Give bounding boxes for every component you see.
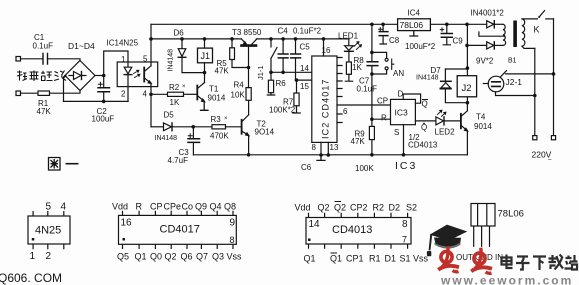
svg-text:4N25: 4N25 — [35, 225, 61, 237]
wire left vertical mains — [534, 48, 536, 135]
node C2 top — [102, 74, 106, 78]
node S rail — [402, 153, 406, 157]
svg-text:Q3: Q3 — [212, 252, 224, 262]
wire R3 to T2 base — [226, 126, 241, 128]
node J1 rail — [203, 37, 207, 41]
resistor R9 — [371, 119, 373, 126]
receiver symbol circle — [488, 76, 504, 92]
svg-text:CP2: CP2 — [350, 203, 368, 213]
svg-text:R1: R1 — [369, 254, 381, 264]
wire bridge minus down — [64, 76, 66, 102]
capacitor C9 polarized — [446, 24, 448, 33]
svg-text:8: 8 — [402, 219, 408, 230]
terminal phone-line top — [16, 57, 21, 62]
node J2 top — [466, 66, 470, 70]
node J1-1 rail — [269, 37, 273, 41]
wire pin6 to IC3 CP — [337, 104, 391, 106]
svg-text:R: R — [136, 202, 143, 212]
wire pin1 step from C2 node — [104, 51, 128, 76]
wire right vertical mains — [553, 19, 555, 136]
svg-text:8: 8 — [230, 235, 235, 245]
svg-text:T3 8550: T3 8550 — [232, 28, 262, 37]
svg-text:S2: S2 — [406, 203, 417, 213]
terminal phone-line bottom — [16, 91, 21, 96]
transistor T2 — [241, 120, 243, 134]
IC2 CD4017 box — [312, 56, 337, 142]
node pin8 rail — [319, 153, 323, 157]
svg-text:13: 13 — [330, 143, 339, 152]
svg-text:CP: CP — [150, 202, 163, 212]
terminal mains left — [533, 136, 537, 140]
node pin4 — [149, 93, 153, 97]
svg-text:K: K — [534, 25, 540, 35]
svg-text:Q606. COM: Q606. COM — [0, 271, 62, 285]
Q dot mark — [423, 123, 425, 125]
svg-text:B1: B1 — [508, 58, 517, 65]
wire pin8 — [320, 142, 322, 155]
wire pin5 up to top line — [150, 24, 152, 66]
resistor R7 — [296, 80, 298, 93]
capacitor C5 — [295, 39, 297, 54]
relay contact J2-1 arm — [500, 71, 506, 78]
svg-text:Q9: Q9 — [195, 202, 207, 212]
svg-text:T1: T1 — [209, 85, 219, 94]
node C5 rail — [294, 37, 298, 41]
svg-text:IC3: IC3 — [395, 160, 417, 172]
capacitor C8 polarized — [382, 24, 384, 31]
watermark bug 1 — [438, 246, 459, 272]
transformer core — [513, 21, 517, 48]
svg-text:CPe: CPe — [164, 202, 182, 212]
C2 plus sign — [98, 82, 102, 86]
wire pin13 — [327, 142, 329, 155]
node R5/base junction — [247, 66, 251, 70]
wire pin4 down to D5 — [151, 126, 164, 128]
svg-text:Q1: Q1 — [330, 254, 342, 264]
wire LED2 to T4 base — [444, 120, 460, 122]
svg-text:C6: C6 — [301, 163, 312, 172]
svg-text:47K: 47K — [37, 107, 52, 116]
svg-text:100uF*2: 100uF*2 — [405, 42, 436, 51]
node right vertical — [552, 72, 556, 76]
svg-text:14: 14 — [309, 219, 321, 230]
wire R5 bottom to junction — [232, 60, 249, 68]
svg-text:LED1: LED1 — [338, 32, 359, 41]
wire pin14 — [271, 71, 312, 73]
receiver left stub — [483, 83, 488, 85]
svg-text:C5: C5 — [300, 43, 311, 52]
resistor R2 — [168, 92, 184, 96]
svg-text:S: S — [394, 128, 399, 137]
svg-text:IC4: IC4 — [408, 9, 421, 18]
4N25 internal LED — [127, 62, 129, 67]
svg-text:78L06: 78L06 — [400, 20, 424, 30]
svg-text:J2: J2 — [462, 83, 472, 94]
svg-text:9014: 9014 — [474, 122, 492, 131]
svg-text:D6: D6 — [174, 29, 185, 38]
node J1-1 bottom — [269, 71, 273, 75]
diode IN4001 upper — [467, 23, 487, 25]
svg-text:CP1: CP1 — [346, 254, 364, 264]
svg-text:IN4148: IN4148 — [168, 49, 175, 72]
svg-text:9O14: 9O14 — [255, 128, 275, 137]
IC2 right pin stubs — [337, 58, 342, 123]
svg-text:5: 5 — [143, 55, 148, 64]
svg-text:J1: J1 — [201, 51, 211, 61]
svg-text:AN: AN — [393, 69, 404, 78]
wire R1 to bridge bottom — [50, 91, 81, 94]
svg-text:100uF: 100uF — [92, 115, 115, 124]
node R junction — [370, 117, 374, 121]
wire secondary bottom — [522, 46, 535, 48]
svg-text:4: 4 — [143, 90, 148, 99]
resistor R6 — [270, 72, 272, 80]
svg-text:www.eeworm.com: www.eeworm.com — [440, 274, 573, 285]
LED2 — [436, 117, 444, 125]
wire hook contact to mains — [506, 73, 554, 75]
svg-text:14: 14 — [300, 64, 309, 73]
node C4 bottom — [281, 71, 285, 75]
78L06 ground stub — [410, 31, 418, 36]
wire R2 to T1 base — [184, 93, 198, 95]
svg-text:CD4013: CD4013 — [408, 141, 438, 150]
resistor R3 — [212, 125, 226, 129]
wire pin4 to R2 — [151, 93, 168, 95]
C9 plus sign — [440, 28, 443, 31]
node J2 bottom — [466, 101, 470, 105]
capacitor C2 polarized — [103, 76, 105, 88]
svg-text:R4: R4 — [234, 81, 245, 90]
svg-text:×: × — [182, 84, 186, 90]
pinout 78L06 TO-92 — [471, 204, 495, 247]
svg-text:J2-1: J2-1 — [506, 77, 523, 87]
svg-text:IC2 CD4017: IC2 CD4017 — [321, 78, 331, 139]
relay contact J1-1 — [271, 39, 277, 72]
svg-text:C4: C4 — [278, 27, 289, 36]
text 图一 drawn glyphs — [49, 158, 79, 171]
svg-text:Q7: Q7 — [196, 252, 208, 262]
node R7 top — [295, 78, 299, 82]
svg-text:Q4: Q4 — [210, 202, 222, 212]
svg-text:Q2: Q2 — [334, 203, 346, 213]
wire terminal to C1 — [21, 58, 43, 60]
pinout CD4017 — [119, 211, 237, 249]
node top line C7 branch — [370, 23, 374, 27]
LED2 arrows — [438, 110, 447, 116]
switch K — [538, 16, 540, 18]
wire pin15 — [296, 79, 312, 81]
capacitor C6 stub — [317, 155, 325, 160]
svg-text:1: 1 — [30, 251, 36, 262]
svg-text:Q1: Q1 — [135, 252, 147, 262]
svg-text:Q2: Q2 — [318, 203, 330, 213]
wire down to C7 — [371, 24, 373, 61]
4N25 light arrows — [134, 70, 139, 73]
svg-text:1K: 1K — [352, 63, 362, 72]
svg-text:D1: D1 — [385, 254, 397, 264]
wire pin16 — [323, 39, 325, 56]
wire D7 top to J2 — [445, 68, 467, 70]
node rectifier top — [465, 23, 469, 27]
capacitor C7 — [367, 62, 378, 66]
svg-text:IN4001*2: IN4001*2 — [471, 9, 505, 18]
node AN top — [370, 51, 374, 55]
LED1 — [348, 39, 350, 46]
svg-text:S1: S1 — [400, 254, 411, 264]
svg-text:Q: Q — [422, 100, 428, 109]
wire bridge plus to C2 node — [95, 75, 104, 77]
svg-text:5: 5 — [46, 202, 52, 213]
resistor R4 — [246, 88, 251, 101]
wire main rail right part — [256, 38, 348, 40]
pinout CD4013 — [306, 202, 411, 254]
transformer B1 secondary winding — [522, 19, 525, 46]
LED1 arrows — [354, 42, 362, 50]
optocoupler IC1 4N25 box — [117, 62, 158, 87]
node C9 top line — [445, 23, 449, 27]
svg-text:9014: 9014 — [208, 94, 226, 103]
wire R4 top to T3 base — [248, 47, 250, 88]
wire main rail left part — [151, 38, 241, 40]
node C2 bottom — [102, 100, 106, 104]
wire node to R3 — [193, 126, 212, 128]
resistor R5 — [230, 48, 235, 60]
svg-text:Q0: Q0 — [150, 252, 162, 262]
watermark 电子下载站 drawn glyphs — [502, 255, 578, 271]
node R9 rail — [370, 153, 374, 157]
diode D5 — [164, 123, 172, 131]
svg-text:Q5: Q5 — [117, 252, 129, 262]
wire pin4 down and junction — [150, 83, 152, 127]
svg-text:×: × — [224, 116, 228, 122]
svg-text:~: ~ — [548, 158, 552, 164]
svg-text:9: 9 — [230, 218, 236, 229]
capacitor C4 — [282, 39, 284, 54]
svg-text:100K*2: 100K*2 — [269, 106, 296, 115]
C3 plus sign — [188, 134, 192, 138]
svg-text:Q1: Q1 — [304, 254, 316, 264]
voltage regulator IC4 78L06 — [398, 19, 431, 31]
bridge rectifier D1~D4 — [65, 61, 95, 91]
transformer center tap — [479, 32, 505, 36]
bridge inner diode — [69, 75, 86, 77]
svg-text:J1-1: J1-1 — [256, 65, 265, 80]
svg-text:78L06: 78L06 — [498, 209, 524, 220]
svg-text:0.1uF: 0.1uF — [357, 85, 378, 94]
svg-text:4: 4 — [61, 202, 67, 213]
svg-text:8: 8 — [312, 143, 317, 152]
relay coil J1 — [204, 39, 206, 48]
transistor T1 — [196, 86, 198, 100]
svg-text:CP: CP — [377, 97, 388, 106]
svg-text:1K: 1K — [170, 98, 180, 107]
node C4 rail — [281, 37, 285, 41]
diode D7 — [444, 69, 446, 81]
svg-text:IN4148: IN4148 — [416, 75, 439, 82]
transistor T3 8550 — [242, 44, 257, 47]
svg-text:6: 6 — [343, 107, 348, 116]
schematic text labels — [33, 9, 553, 174]
IC3 D-Qbar feedback loop — [403, 94, 420, 103]
pushbutton AN — [372, 52, 387, 58]
node AN bottom — [370, 72, 374, 76]
text 接电话线 drawn glyphs — [17, 71, 67, 82]
svg-text:LED2: LED2 — [435, 128, 456, 137]
svg-text:Vdd: Vdd — [112, 202, 128, 212]
wire R to IC3 — [372, 118, 391, 120]
node R5 rail — [230, 37, 234, 41]
svg-text:4.7uF: 4.7uF — [168, 156, 189, 165]
wire bottom-left rail — [64, 100, 129, 102]
svg-text:C8: C8 — [389, 36, 400, 45]
node pin5 rail — [149, 37, 153, 41]
terminal mains right — [551, 136, 555, 140]
svg-text:D: D — [398, 90, 404, 99]
svg-text:0.1uF: 0.1uF — [33, 42, 54, 51]
svg-text:10K: 10K — [231, 91, 246, 100]
watermark graduation cap — [427, 225, 467, 257]
svg-text:47K: 47K — [215, 67, 230, 76]
svg-text:Q6: Q6 — [181, 252, 193, 262]
wire C1 to bridge top — [48, 59, 81, 61]
svg-text:T4: T4 — [476, 113, 486, 122]
svg-text:15: 15 — [300, 82, 309, 91]
svg-text:16: 16 — [121, 218, 133, 229]
wire IC3 Q to LED2 — [415, 120, 435, 122]
svg-text:47K: 47K — [351, 137, 366, 146]
wire IC3 S down — [403, 125, 405, 155]
svg-text:D1~D4: D1~D4 — [68, 41, 95, 51]
node rectifier bottom — [465, 44, 469, 48]
svg-text:Vss: Vss — [227, 252, 243, 262]
wire terminal to R1 — [21, 92, 39, 94]
node T2 emitter rail — [247, 153, 251, 157]
wire rail to R5 — [231, 39, 233, 48]
svg-text:Q8: Q8 — [224, 202, 236, 212]
node pin13 rail — [327, 153, 331, 157]
svg-text:C9: C9 — [453, 37, 464, 46]
svg-text:470K: 470K — [210, 132, 229, 141]
svg-text:Q2: Q2 — [165, 252, 177, 262]
node left vertical — [533, 94, 537, 98]
svg-text:9V*2: 9V*2 — [476, 57, 494, 66]
svg-text:R: R — [381, 114, 387, 123]
svg-text:CD4013: CD4013 — [332, 224, 372, 236]
resistor R1 — [38, 91, 50, 95]
svg-text:7: 7 — [402, 235, 407, 245]
diode IN4001 lower — [467, 44, 487, 46]
svg-text:IC14N25: IC14N25 — [107, 39, 139, 48]
diode D6 — [181, 39, 183, 49]
svg-text:D2: D2 — [389, 203, 401, 213]
svg-text:16: 16 — [322, 46, 331, 55]
svg-text:0.1uF*2: 0.1uF*2 — [293, 27, 322, 36]
pinout 4N25 — [28, 211, 70, 249]
svg-text:100K: 100K — [355, 164, 374, 173]
transformer B1 primary winding — [503, 24, 506, 45]
wire pin2 down — [127, 87, 129, 102]
svg-text:IN4148: IN4148 — [155, 135, 178, 142]
node D6 rail — [180, 37, 184, 41]
watermark bug 2 — [471, 248, 492, 274]
svg-text:R2: R2 — [373, 203, 385, 213]
wire receiver bottom — [496, 92, 535, 96]
svg-text:Co: Co — [182, 202, 194, 212]
svg-text:CD4017: CD4017 — [160, 224, 200, 236]
svg-text:R2: R2 — [169, 83, 180, 92]
node D6/J1 junction — [203, 71, 207, 75]
svg-text:R3: R3 — [211, 115, 222, 124]
Qbar overline — [422, 99, 428, 101]
svg-text:D5: D5 — [164, 111, 175, 120]
C8 plus sign — [379, 28, 382, 31]
relay coil J2 — [466, 24, 468, 102]
svg-text:2: 2 — [46, 251, 52, 262]
transistor T4 — [460, 114, 462, 129]
capacitor C3 polarized — [192, 127, 194, 139]
svg-text:Vdd: Vdd — [295, 203, 311, 213]
svg-text:R6: R6 — [276, 79, 287, 88]
node D5/C3/R3 — [191, 125, 195, 129]
flipflop IC3 box — [391, 99, 416, 124]
svg-text:2: 2 — [121, 90, 126, 99]
resistor R8 — [348, 51, 350, 62]
node C8 top line — [381, 23, 385, 27]
4N25 phototransistor — [143, 68, 145, 82]
wire top line — [151, 23, 467, 25]
svg-text:Vss: Vss — [413, 254, 429, 264]
svg-text:1: 1 — [121, 55, 126, 64]
node pin16 rail — [322, 37, 326, 41]
capacitor C1 — [43, 54, 48, 65]
wire bottom rail — [193, 154, 467, 156]
wire secondary top to switch K — [522, 18, 537, 20]
svg-text:IC3: IC3 — [395, 108, 409, 118]
